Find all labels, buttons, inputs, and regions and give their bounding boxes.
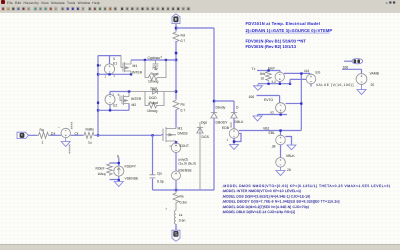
svg-text:RdRs: RdRs	[86, 128, 95, 132]
menu bar	[0, 0, 400, 14]
ground below EDB	[230, 145, 239, 150]
node rail-e2bot	[97, 109, 99, 111]
source E2	[105, 95, 115, 105]
wire DBLK-EDB	[233, 118, 235, 129]
svg-text:100: 100	[249, 95, 255, 99]
svg-text:.MODEL DBODY D(IS=7.78E-9 N=1.: .MODEL DBODY D(IS=7.78E-9 N=1.04E[ES BS=…	[222, 200, 340, 204]
svg-text:Ls: Ls	[179, 213, 183, 217]
node dbody-branch	[213, 100, 216, 103]
resistor RDF	[107, 163, 113, 176]
resistor Rs2	[173, 191, 179, 205]
svg-text:0.7: 0.7	[181, 39, 186, 43]
diode Dbody	[211, 113, 217, 119]
wire cgs branch	[152, 135, 154, 190]
svg-text:(1u,0) (3u,0): (1u,0) (3u,0)	[179, 162, 197, 166]
svg-text:E1: E1	[113, 62, 117, 66]
wire cgd top	[131, 59, 176, 61]
svg-text:E2: E2	[113, 104, 117, 108]
window buttons	[384, 1, 398, 4]
node e2-top	[128, 90, 130, 92]
wire E2 top	[110, 92, 131, 96]
label evt value (rotated)	[71, 122, 73, 129]
source EVTHRES	[61, 128, 70, 137]
resistor Rdgd (box bottom)	[145, 92, 164, 109]
wire right rail	[284, 73, 311, 130]
resistor Rs-mid	[173, 99, 179, 111]
source E1	[104, 64, 114, 74]
svg-text:Dgs: Dgs	[201, 121, 207, 125]
wire Rg-Evto	[50, 134, 61, 136]
port G (gate flag)	[17, 132, 29, 138]
transistor M1i INTER	[121, 56, 131, 75]
node edb-bot	[233, 140, 236, 143]
svg-text:DMOS: DMOS	[178, 132, 189, 136]
svg-text:.MODEL INTER NMOS(VTO=0 KP=10: .MODEL INTER NMOS(VTO=0 KP=10 LEVEL=1)	[222, 189, 301, 193]
node gate-cgs	[151, 134, 153, 136]
svg-text:VSENSE: VSENSE	[125, 177, 139, 181]
resistor Rvto	[83, 132, 95, 138]
svg-text:1u: 1u	[88, 140, 92, 144]
wire drain top	[175, 24, 177, 31]
ground VAMB	[357, 84, 366, 94]
source EG	[306, 74, 316, 84]
wire rail below Rd	[175, 41, 177, 60]
svg-text:DGS: DGS	[202, 135, 210, 139]
source EBL	[280, 131, 282, 136]
node rail-gate	[97, 134, 99, 136]
wire VB1 bus	[239, 130, 301, 132]
source EKP circle	[275, 72, 284, 81]
port D (drain flag, top)	[172, 14, 180, 24]
svg-text:EBL: EBL	[269, 131, 276, 135]
ground EBL ctrl	[287, 145, 296, 150]
wire gate bus	[95, 134, 161, 136]
wire evt-right	[70, 134, 83, 136]
source VSENSE	[172, 171, 181, 180]
wire EBL-VBLK	[280, 145, 282, 158]
svg-text:Cgdmax: Cgdmax	[148, 56, 161, 60]
resistor Rg	[37, 132, 50, 138]
ground ekp	[254, 84, 263, 91]
svg-text:4: 4	[100, 64, 102, 68]
wire evto ctrl right	[286, 103, 301, 105]
svg-text:0.3m: 0.3m	[180, 201, 188, 205]
source EDB	[229, 129, 239, 139]
svg-text:10meg: 10meg	[148, 80, 158, 84]
svg-text:1Meg: 1Meg	[98, 172, 106, 176]
node rail-blk1bot	[97, 73, 99, 75]
svg-text:10meg: 10meg	[147, 109, 157, 113]
node 6	[175, 59, 178, 62]
svg-text:M1: M1	[178, 127, 183, 131]
node fddpy-bot	[118, 179, 120, 181]
wire rail 110-126	[175, 110, 177, 128]
wire G-Rg	[29, 134, 38, 136]
port flag 50	[344, 59, 363, 64]
status bar	[0, 244, 400, 250]
transistor M1 DMOS	[163, 127, 176, 143]
svg-text:VAMB: VAMB	[370, 72, 380, 76]
node ekp-b2	[279, 83, 281, 85]
svg-text:Rcgd: Rcgd	[151, 72, 159, 76]
wire drain to Dbody branch	[176, 27, 214, 29]
wire EBL ctrl gnd	[285, 137, 291, 146]
svg-text:Rs: Rs	[180, 195, 184, 199]
wire to S port	[175, 224, 177, 229]
wire ekp top	[257, 71, 280, 73]
resistor Rd	[173, 31, 179, 43]
wire EOUT-VSENSE	[175, 153, 177, 172]
svg-text:10: 10	[261, 77, 265, 81]
svg-text:0.3p: 0.3p	[157, 180, 164, 184]
svg-text:0.6n: 0.6n	[179, 219, 186, 223]
ground below EVTHRES	[61, 138, 70, 147]
svg-text:Ck: Ck	[75, 131, 79, 135]
svg-text:VALUE [V(16,100)]: VALUE [V(16,100)]	[316, 83, 354, 87]
wire E1 bottom	[98, 73, 131, 75]
resistor RKP	[266, 72, 272, 82]
svg-text:Rg: Rg	[40, 128, 44, 132]
node right-rail-ctrl	[300, 72, 302, 74]
svg-text:FDV301N (Rev B2) 10/1/13: FDV301N (Rev B2) 10/1/13	[246, 44, 297, 49]
node source	[175, 189, 178, 192]
wire source bus	[153, 189, 215, 191]
svg-text:INTER: INTER	[131, 97, 142, 101]
svg-text:DBODY: DBODY	[216, 121, 229, 125]
svg-text:0.7: 0.7	[181, 109, 186, 113]
resistor Rcgd (box bottom)	[145, 60, 166, 80]
wire ekp bottom	[258, 82, 290, 84]
diode DBLK	[231, 113, 237, 119]
transistor M2 INTER	[120, 92, 129, 106]
wire E1 top loop	[98, 56, 121, 64]
node evto-bot	[280, 113, 282, 115]
ground below FDDPY	[114, 181, 123, 187]
node rail-e1ctrl	[97, 64, 99, 66]
wire Dbody rail	[213, 28, 215, 190]
svg-text:Dbody: Dbody	[216, 106, 226, 110]
svg-text:RDEF: RDEF	[96, 166, 105, 170]
svg-text:M2: M2	[132, 103, 137, 107]
node 5	[175, 52, 178, 55]
svg-text:7: 7	[112, 93, 114, 97]
node m1i-bot	[130, 73, 132, 75]
svg-text:EOUT: EOUT	[180, 144, 189, 148]
svg-text:5: 5	[113, 57, 115, 61]
svg-text:M1: M1	[133, 64, 138, 68]
wire gate stub	[161, 134, 163, 136]
node ekp-b3	[289, 83, 291, 85]
svg-text:8: 8	[118, 93, 120, 97]
wire E2 bottom	[98, 104, 129, 111]
svg-text:FDV301N (Rev B1) 5/19/03 **NT: FDV301N (Rev B1) 5/19/03 **NT	[246, 39, 307, 44]
svg-text:−: −	[58, 126, 60, 130]
wire VSENSE to src node	[175, 180, 177, 190]
wire left rail	[97, 56, 99, 136]
toolbar	[0, 5, 400, 13]
node e1-bot	[108, 73, 110, 75]
wire evto bottom to gnd	[258, 115, 288, 117]
spice directive .MODEL lines	[222, 184, 390, 214]
node rail-e2	[97, 102, 99, 104]
node junction drain/branch	[175, 27, 178, 30]
svg-text:.MODEL DGD D(M=0.2[7]5E0 N=[4.: .MODEL DGD D(M=0.2[7]5E0 N=[4.34E-N] CJO…	[222, 205, 309, 209]
svg-text:FDDPY: FDDPY	[125, 165, 137, 169]
node cgd-b	[165, 59, 167, 61]
svg-text:.MODEL DGS D(BV=[3.5E3/1] N=[4: .MODEL DGS D(BV=[3.5E3/1] N=[4.34E-1] CJ…	[222, 194, 310, 198]
capacitor Cgdmax	[153, 60, 159, 70]
wire evto top	[257, 96, 280, 104]
inductor Ls	[174, 203, 176, 224]
svg-text:EVTO: EVTO	[264, 98, 274, 102]
wire fddpy top	[110, 158, 119, 167]
svg-text:VBLK: VBLK	[286, 154, 295, 158]
svg-text:71p: 71p	[152, 67, 158, 71]
svg-text:2)=DRAIN 1)=GATE 3)=SOURCE 0)=: 2)=DRAIN 1)=GATE 3)=SOURCE 0)=VTEMP	[246, 28, 333, 33]
port S (source flag, bottom)	[172, 226, 180, 241]
svg-text:EDB: EDB	[222, 126, 230, 130]
wire DBLK branch	[214, 101, 234, 113]
ground VBLK	[276, 167, 285, 175]
node e2-bot	[109, 109, 111, 111]
svg-text:RW: RW	[260, 72, 265, 76]
diode Dgs	[197, 122, 203, 190]
svg-text:DGD: DGD	[149, 96, 157, 100]
svg-text:.MODEL DMOS NMOS(VTO=[0.63] KP: .MODEL DMOS NMOS(VTO=[0.63] KP=[0.1351/1…	[222, 184, 390, 188]
diode Dgd	[129, 89, 176, 94]
node m1-eout	[175, 141, 178, 144]
svg-text:Rs: Rs	[181, 103, 185, 107]
node dgd-rail	[175, 90, 178, 93]
svg-text:INTER: INTER	[132, 71, 143, 75]
current source FDDPY	[114, 166, 124, 176]
svg-text:25: 25	[371, 83, 375, 87]
ground evto	[253, 116, 262, 121]
svg-text:1: 1	[105, 75, 107, 79]
wire EDB loop	[234, 134, 241, 145]
wire rail 60-95	[175, 60, 177, 99]
svg-text:VSENSE: VSENSE	[178, 169, 192, 173]
svg-text:8: 8	[117, 155, 119, 159]
svg-text:FDV301N at Temp. Electrical Mo: FDV301N at Temp. Electrical Model	[246, 21, 321, 26]
svg-text:1: 1	[42, 140, 44, 144]
svg-text:1: 1	[227, 138, 229, 142]
svg-text:.MODEL DBLK D(BV=1E-14 CJO=1/4: .MODEL DBLK D(BV=1E-14 CJO=1/4p RS=[1]	[222, 210, 295, 214]
svg-text:VB1: VB1	[263, 126, 270, 130]
node right-rail-evto	[300, 102, 302, 104]
svg-text:EG: EG	[316, 71, 321, 75]
capacitor Cgs	[150, 175, 156, 178]
node cgd-a	[144, 59, 146, 61]
svg-text:113: 113	[304, 69, 309, 73]
node ekp-top	[267, 69, 269, 71]
wire ekp to EG ctrl	[290, 78, 306, 80]
svg-text:Rdgd: Rdgd	[150, 101, 158, 105]
source EOUT	[171, 143, 181, 153]
svg-text:20: 20	[287, 168, 291, 172]
svg-text:DBLK: DBLK	[235, 120, 245, 124]
comment text block	[246, 21, 333, 49]
node fddpy-top	[118, 162, 120, 164]
svg-text:.38: .38	[271, 144, 276, 148]
node ekp-b1	[267, 83, 269, 85]
wire fddpy bottom	[110, 176, 119, 181]
label evt value2 (rotated)	[69, 145, 71, 154]
svg-text:Rd: Rd	[181, 34, 185, 38]
svg-text:Tx: Tx	[252, 67, 256, 71]
svg-text:Dgd: Dgd	[151, 87, 157, 91]
svg-text:Cjs: Cjs	[157, 172, 162, 176]
